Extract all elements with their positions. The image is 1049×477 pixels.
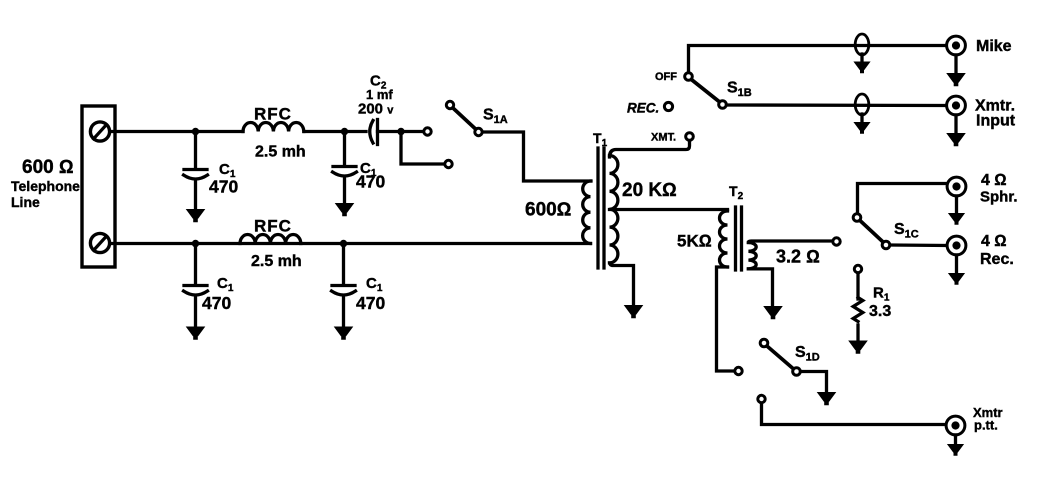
svg-text:REC.: REC. [627, 101, 659, 116]
T1 core [598, 148, 604, 268]
switch S1C [853, 214, 890, 249]
ground under T2 secondary [763, 306, 783, 319]
inductor RFC1 2.5mh [243, 122, 304, 131]
ground under T1 secondary [624, 305, 644, 318]
svg-text:4 Ω: 4 Ω [981, 233, 1007, 250]
wire: S1B to Xmtr input jack [727, 103, 947, 107]
ground under Xmtr Input jack [954, 115, 957, 133]
wire: T1 tap to T2 primary top [610, 208, 728, 211]
wire: Sphr jack to S1C pole [858, 184, 947, 214]
svg-text:Sphr.: Sphr. [980, 189, 1018, 206]
open terminal 3.2 ohm [833, 238, 840, 245]
wire: S1A to T1 primary top [483, 132, 592, 181]
svg-text:470: 470 [202, 293, 231, 313]
transformer T2 secondary winding 3.2 ohm [748, 243, 756, 269]
wire: S1C to Rec jack [890, 243, 947, 247]
svg-text:3.3: 3.3 [869, 303, 891, 320]
ground under Mike jack [954, 55, 957, 73]
node C (junction) [397, 128, 404, 135]
screw terminal top [90, 122, 109, 141]
S1D lower terminal [758, 395, 765, 402]
ground under Xmtr ptt jack [954, 435, 957, 444]
screw terminal bottom [90, 233, 109, 252]
wire: Mike jack line [689, 46, 947, 73]
transformer T1 secondary winding 20K [610, 156, 618, 263]
svg-text:2.5 mh: 2.5 mh [255, 144, 306, 161]
transformer T2 primary winding 5K [720, 211, 728, 267]
ground under C1c [186, 327, 206, 340]
terminal block (600-ohm telephone line barrier strip) [82, 106, 115, 267]
svg-text:20 KΩ: 20 KΩ [622, 180, 677, 201]
svg-text:470: 470 [356, 293, 385, 313]
open terminal (lower) [445, 160, 452, 167]
svg-text:Rec.: Rec. [980, 251, 1014, 268]
svg-text:470: 470 [356, 172, 385, 192]
jack Xmtr Input [947, 96, 966, 115]
label 600 ohm telephone line [11, 157, 80, 210]
switch S1A [446, 101, 482, 135]
jack 4-ohm Sphr [947, 177, 966, 196]
shield loop on mike line [855, 34, 869, 62]
ground under C1a [186, 209, 206, 222]
jack Mike [947, 36, 966, 55]
T2 core [736, 207, 742, 270]
ground under xmtr-line loop [853, 122, 870, 134]
ground under mike-line loop [853, 62, 870, 74]
wire: C2 to node C [378, 130, 402, 133]
ground at S1D pole [817, 392, 837, 405]
svg-text:OFF: OFF [655, 71, 677, 83]
wire: node C to open terminal [401, 130, 423, 133]
svg-text:4 Ω: 4 Ω [981, 172, 1007, 189]
ground under Sphr jack [955, 196, 958, 213]
capacitor C1c 470 (bottom-left shunt) [184, 244, 208, 327]
R1 top terminal [854, 265, 861, 272]
switch S1B with OFF position [685, 73, 727, 109]
svg-text:3.2 Ω: 3.2 Ω [776, 247, 820, 267]
svg-text:Input: Input [976, 113, 1016, 130]
label 4 ohm Sphr [980, 172, 1018, 206]
label Xmtr Input [975, 98, 1016, 130]
ground under C1b [335, 203, 355, 216]
ground under C1d [334, 327, 354, 340]
S1D throw terminal [735, 367, 742, 374]
resistor R1 3.3 [853, 298, 863, 322]
ground under R1 [848, 341, 868, 354]
svg-text:2.5 mh: 2.5 mh [251, 253, 302, 270]
XMT terminal [686, 133, 694, 141]
capacitor C2 1mf 200v (series) [370, 120, 378, 145]
jack Xmtr p.tt. [946, 416, 965, 435]
wire: RFC1 to node B [304, 130, 345, 133]
svg-text:p.tt.: p.tt. [974, 418, 998, 433]
wire: node A to RFC1 [196, 130, 244, 133]
wire: node C down to lower open terminal [401, 132, 444, 165]
node A (junction) [192, 128, 199, 135]
svg-text:470: 470 [209, 177, 238, 197]
transformer T1 primary winding 600 ohm [583, 181, 591, 244]
wire: T2 secondary top to 3.2 terminal [748, 241, 832, 243]
capacitor C1b 470 (top-right shunt) [333, 132, 357, 204]
svg-text:Line: Line [11, 194, 40, 210]
shield loop on xmtr line [855, 94, 869, 122]
svg-text:XMT.: XMT. [651, 132, 676, 144]
REC terminal [664, 102, 672, 110]
ground under Rec jack [955, 255, 958, 273]
inductor RFC2 2.5mh [240, 234, 301, 243]
jack 4-ohm Rec [947, 236, 966, 255]
switch S1D [760, 339, 800, 375]
wire: T2 primary bottom to S1D throw [717, 267, 735, 371]
svg-text:Telephone: Telephone [11, 178, 80, 194]
node B (junction) [341, 128, 348, 135]
wire: T1 secondary top to XMT terminal [610, 141, 690, 158]
label 4 ohm Rec [980, 233, 1014, 268]
svg-text:600 Ω: 600 Ω [22, 157, 74, 178]
wire: T2 secondary bottom to ground [748, 269, 772, 306]
svg-text:RFC: RFC [254, 217, 292, 236]
open terminal (upper) [424, 128, 431, 135]
wire: node B to C2 [345, 130, 367, 133]
wire: terminal to R1 [856, 273, 859, 299]
node D (junction) [192, 240, 199, 247]
label Xmtr p.tt. [973, 405, 1003, 433]
svg-text:RFC: RFC [254, 105, 292, 124]
node E (junction) [340, 240, 347, 247]
wire: top line from screw to node A [111, 130, 196, 133]
wire: lower terminal to Xmtr ptt jack [762, 403, 946, 425]
capacitor C1a 470 (top-left shunt) [184, 132, 208, 210]
wire: T1 secondary bottom to ground [610, 263, 634, 305]
wire: bottom line from screw to T1 primary bottom [111, 242, 591, 245]
wire: R1 to ground [856, 325, 859, 341]
svg-text:600Ω: 600Ω [525, 200, 571, 221]
capacitor C1d 470 (bottom-right shunt) [332, 244, 356, 327]
svg-text:5KΩ: 5KΩ [677, 232, 712, 251]
svg-text:Mike: Mike [976, 38, 1012, 55]
wire: S1D pole to ground [801, 372, 827, 393]
